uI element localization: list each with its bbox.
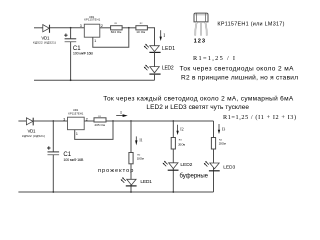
wire branch2 vertical	[172, 121, 174, 192]
svg-text:LED2 и LED3 светят чуть тускле: LED2 и LED3 светят чуть тусклее	[146, 104, 249, 111]
svg-text:100 мкФ 16В: 100 мкФ 16В	[63, 158, 83, 162]
svg-text:КР1157ЕН1 (или LM317): КР1157ЕН1 (или LM317)	[217, 22, 284, 28]
svg-text:R2 в принципе лишний, но я ста: R2 в принципе лишний, но я ставил	[181, 74, 298, 82]
resistor R2 (branch1)	[129, 153, 133, 164]
wire LED1 to LED2	[154, 52, 156, 66]
node junction C1 top	[52, 120, 54, 122]
wire adjust feedback	[75, 121, 113, 139]
svg-text:LED2: LED2	[162, 66, 174, 72]
svg-text:3: 3	[63, 118, 65, 122]
svg-text:1: 1	[94, 39, 96, 43]
current arrow I2	[176, 125, 178, 135]
svg-text:3: 3	[202, 38, 205, 44]
svg-text:10 Ом: 10 Ом	[137, 157, 144, 161]
wire regulator output to R1	[100, 27, 111, 29]
node branch2 top	[172, 120, 174, 122]
regulator UR1 box (bottom)	[68, 117, 85, 130]
svg-text:I2: I2	[180, 127, 183, 132]
capacitor C1 (bottom)	[47, 121, 59, 192]
svg-text:20 Ом: 20 Ом	[219, 141, 226, 145]
svg-text:VD1: VD1	[28, 129, 37, 134]
svg-text:прожектор: прожектор	[98, 168, 133, 174]
LED LED1 (branch1)	[121, 177, 137, 186]
package leg 2	[200, 22, 202, 36]
resistor R1 (bottom)	[94, 118, 106, 122]
wire LED2 down	[154, 74, 156, 80]
LED LED2	[144, 65, 161, 74]
current arrow I1	[135, 136, 137, 145]
svg-text:604 Ом: 604 Ом	[111, 30, 122, 34]
svg-text:КР1157ЕН1: КР1157ЕН1	[68, 112, 84, 116]
transistor package TO-92 body	[194, 13, 208, 22]
capacitor C1	[64, 28, 76, 80]
svg-text:Ток через светодиоды около 2 м: Ток через светодиоды около 2 мА	[180, 66, 295, 73]
svg-text:КР1157ЕН1: КР1157ЕН1	[84, 18, 101, 22]
node junction C1 top	[70, 27, 72, 29]
node C1 bottom	[52, 191, 54, 193]
current arrow I3	[218, 124, 220, 134]
package leg 3	[205, 22, 207, 36]
current arrow I	[116, 114, 128, 117]
resistor R3 (branch2)	[171, 138, 175, 150]
wire input stub left of VD1	[18, 120, 26, 122]
node C1 bottom	[70, 79, 72, 81]
LED LED1	[144, 44, 161, 53]
diode VD1	[43, 25, 50, 33]
node adj junction	[112, 120, 114, 122]
svg-text:I3: I3	[222, 126, 225, 131]
wire R2 to LED1 branch	[147, 28, 154, 46]
node branch2 bottom	[172, 191, 174, 193]
svg-text:КД522 (КД521): КД522 (КД521)	[22, 134, 45, 138]
wire R1 to branch 3 corner	[106, 120, 214, 122]
package leg 1	[195, 22, 197, 36]
svg-text:R1=1,25 / (I1 + I2 + I3): R1=1,25 / (I1 + I2 + I3)	[223, 114, 296, 121]
svg-text:LED1: LED1	[162, 46, 175, 52]
wire VD1 to regulator	[34, 120, 68, 122]
wire branch3 corner from top	[213, 121, 215, 192]
svg-text:10 Ом: 10 Ом	[136, 30, 145, 34]
wire adjust feedback	[93, 28, 129, 47]
resistor R2	[136, 26, 148, 30]
wire branch1 vertical	[130, 121, 132, 192]
wire bottom return	[34, 79, 155, 81]
svg-text:I1: I1	[139, 137, 142, 142]
svg-text:1: 1	[194, 38, 197, 44]
wire R1 to R2	[122, 27, 136, 29]
LED LED3 (branch3)	[204, 161, 220, 171]
wire input stub left of VD1	[34, 27, 43, 29]
svg-text:LED2: LED2	[180, 162, 192, 168]
svg-text:1: 1	[76, 132, 78, 136]
diode VD1 (bottom)	[26, 118, 33, 126]
node branch1 top	[130, 120, 132, 122]
svg-text:LED3: LED3	[223, 165, 235, 171]
svg-text:2: 2	[198, 38, 201, 44]
resistor R4 (branch3)	[211, 138, 215, 150]
svg-text:Ток через каждый светодиод око: Ток через каждый светодиод около 2 мА, с…	[103, 94, 294, 102]
resistor R1	[111, 26, 123, 30]
svg-text:КД522 (КД521): КД522 (КД521)	[33, 41, 56, 45]
current arrow I	[160, 30, 162, 41]
node branch1 bottom	[130, 191, 132, 193]
wire regulator output to R1	[84, 120, 94, 122]
svg-text:100 мкФ 16В: 100 мкФ 16В	[73, 52, 93, 56]
svg-text:205 Ом: 205 Ом	[95, 123, 106, 127]
svg-text:20 Ом: 20 Ом	[178, 143, 185, 147]
op-amp U1 regulator UR1 box	[84, 24, 100, 37]
svg-text:буферные: буферные	[180, 174, 209, 180]
wire VD1 to regulator	[50, 27, 84, 29]
svg-text:3: 3	[80, 24, 82, 28]
node adj junction	[128, 27, 130, 29]
LED LED2 (branch2)	[163, 161, 179, 170]
wire bottom return	[18, 191, 213, 193]
svg-text:LED1: LED1	[140, 179, 152, 185]
svg-text:UR1: UR1	[73, 108, 79, 112]
